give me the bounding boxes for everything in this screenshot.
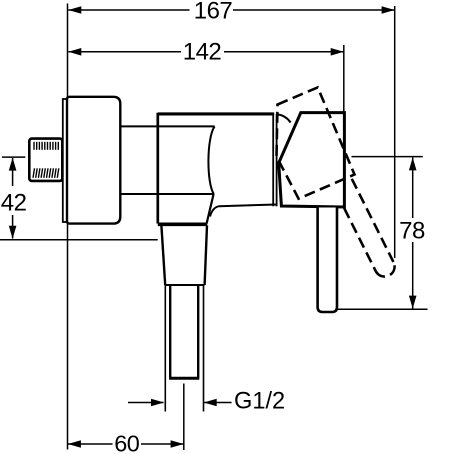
extension line: wall plane (left, x=67.5): [67, 4, 69, 450]
spout tube inner left wall: [169, 285, 171, 378]
handle head (solid): [279, 113, 345, 207]
threaded inlet pipe G1/2: [29, 139, 62, 181]
wall flange plate: [63, 99, 68, 222]
spout centerline: [183, 384, 185, 451]
extension line: 42 top tick: [2, 156, 25, 158]
spout tube inner right wall: [197, 285, 199, 378]
extension line: 167 right (lever tip, x=394.7): [394, 6, 396, 258]
dashed lever end cap: [376, 262, 395, 277]
spout tube bottom edge: [169, 377, 199, 380]
arrow 60 left: [68, 440, 81, 448]
svg-text:60: 60: [114, 431, 140, 454]
arrow 42 up: [9, 158, 17, 171]
arrow 60 right: [171, 440, 184, 448]
dimension 142 line: [68, 51, 181, 53]
cartridge cap arc: [277, 114, 291, 122]
arrow 42 down: [9, 226, 17, 239]
pipe thread hatching top: [34, 142, 58, 150]
extension line: 78 top (x 351.5-422.8, y=156.6): [352, 156, 423, 158]
handle grip (solid, pointing down): [318, 208, 337, 313]
spout cone left edge: [161, 226, 165, 286]
main body left edge: [156, 113, 159, 224]
dashed lever right edge: [352, 179, 394, 262]
connector cylinder top line: [120, 125, 214, 127]
dimension 60 line: [68, 443, 113, 445]
dimension 42 vertical line: [12, 158, 14, 186]
spout cone right edge: [205, 226, 207, 286]
spout cone bottom edge: [165, 284, 204, 286]
body underside line: [219, 205, 277, 207]
svg-text:78: 78: [399, 218, 425, 245]
extension line: 142 right (head edge, x=343.8): [343, 45, 345, 114]
body underside fillet: [210, 206, 219, 216]
dashed lever left edge: [344, 208, 376, 271]
dimension 78 vertical line: [412, 157, 414, 218]
arrow G1/2 right (pointing left): [204, 399, 217, 407]
extension line: 78 bottom (y=309.3): [337, 308, 428, 310]
spout tube outer right wall / G1/2 extension: [203, 285, 205, 412]
spout tube outer left wall / G1/2 extension: [164, 285, 166, 412]
body right edge pair (cartridge joint): [272, 114, 274, 206]
dimension 167 line: [68, 9, 189, 11]
svg-text:142: 142: [183, 39, 222, 66]
svg-text:167: 167: [194, 0, 233, 25]
svg-text:G1/2: G1/2: [234, 389, 285, 415]
arrow 142 left: [68, 48, 81, 56]
arrow 78 up: [409, 157, 417, 170]
arrow 78 down: [409, 296, 417, 309]
connector cylinder bottom line: [120, 193, 214, 195]
arrow 167 left: [68, 6, 81, 14]
arrow 142 right: [331, 48, 344, 56]
cylinder end-cap arc: [208, 126, 214, 194]
dimension G1/2 line: [128, 402, 164, 404]
arrow 167 right: [382, 6, 395, 14]
main body top edge: [158, 112, 274, 115]
cone top thick edge: [158, 223, 208, 227]
pipe thread hatching bottom: [33, 168, 59, 178]
extension line: 42 bottom reference: [0, 239, 158, 241]
arrow G1/2 left (pointing right): [151, 399, 164, 407]
dashed handle head (rotated position): [277, 87, 355, 198]
svg-text:42: 42: [1, 190, 27, 217]
escutcheon body: [67, 97, 120, 224]
mid-block right slant edge: [207, 194, 214, 224]
